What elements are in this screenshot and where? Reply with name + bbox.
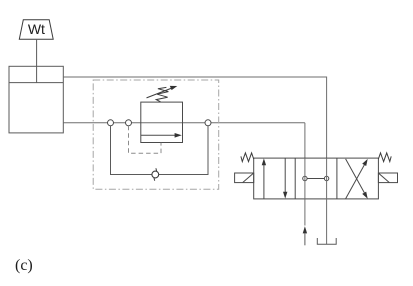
spring left (241, 153, 254, 162)
pilot line dashed (129, 126, 162, 153)
check valve (152, 168, 159, 181)
weight Wt (19, 20, 53, 40)
directional valve body (254, 158, 379, 199)
svg-text:Wt: Wt (28, 21, 45, 37)
label (c) (15, 257, 33, 274)
adjustable spring (147, 86, 178, 102)
enclosure dashed box (93, 80, 219, 189)
solenoid right (378, 173, 397, 183)
wire bypass line (111, 126, 209, 175)
flow arrow down (left box) (283, 158, 287, 199)
cylinder (9, 66, 63, 133)
spring right (378, 153, 391, 162)
crossed arrows (right box) (346, 159, 368, 199)
port circles middle box (303, 176, 329, 180)
wire valve port to tank (326, 158, 328, 244)
pressure reducing valve body (141, 102, 183, 142)
wire valve port down through middle box (304, 158, 306, 225)
flow arrow up (left box) (262, 158, 266, 199)
node C (205, 120, 211, 126)
node A (108, 120, 114, 126)
solenoid left (235, 173, 254, 183)
piston rod (36, 40, 38, 83)
node B (126, 120, 132, 126)
tank (317, 238, 336, 244)
pump supply arrow (303, 226, 307, 245)
wire main line from cylinder through reducing valve (63, 123, 305, 158)
wire top line from cylinder to valve port (63, 77, 326, 158)
svg-text:(c): (c) (15, 257, 33, 274)
